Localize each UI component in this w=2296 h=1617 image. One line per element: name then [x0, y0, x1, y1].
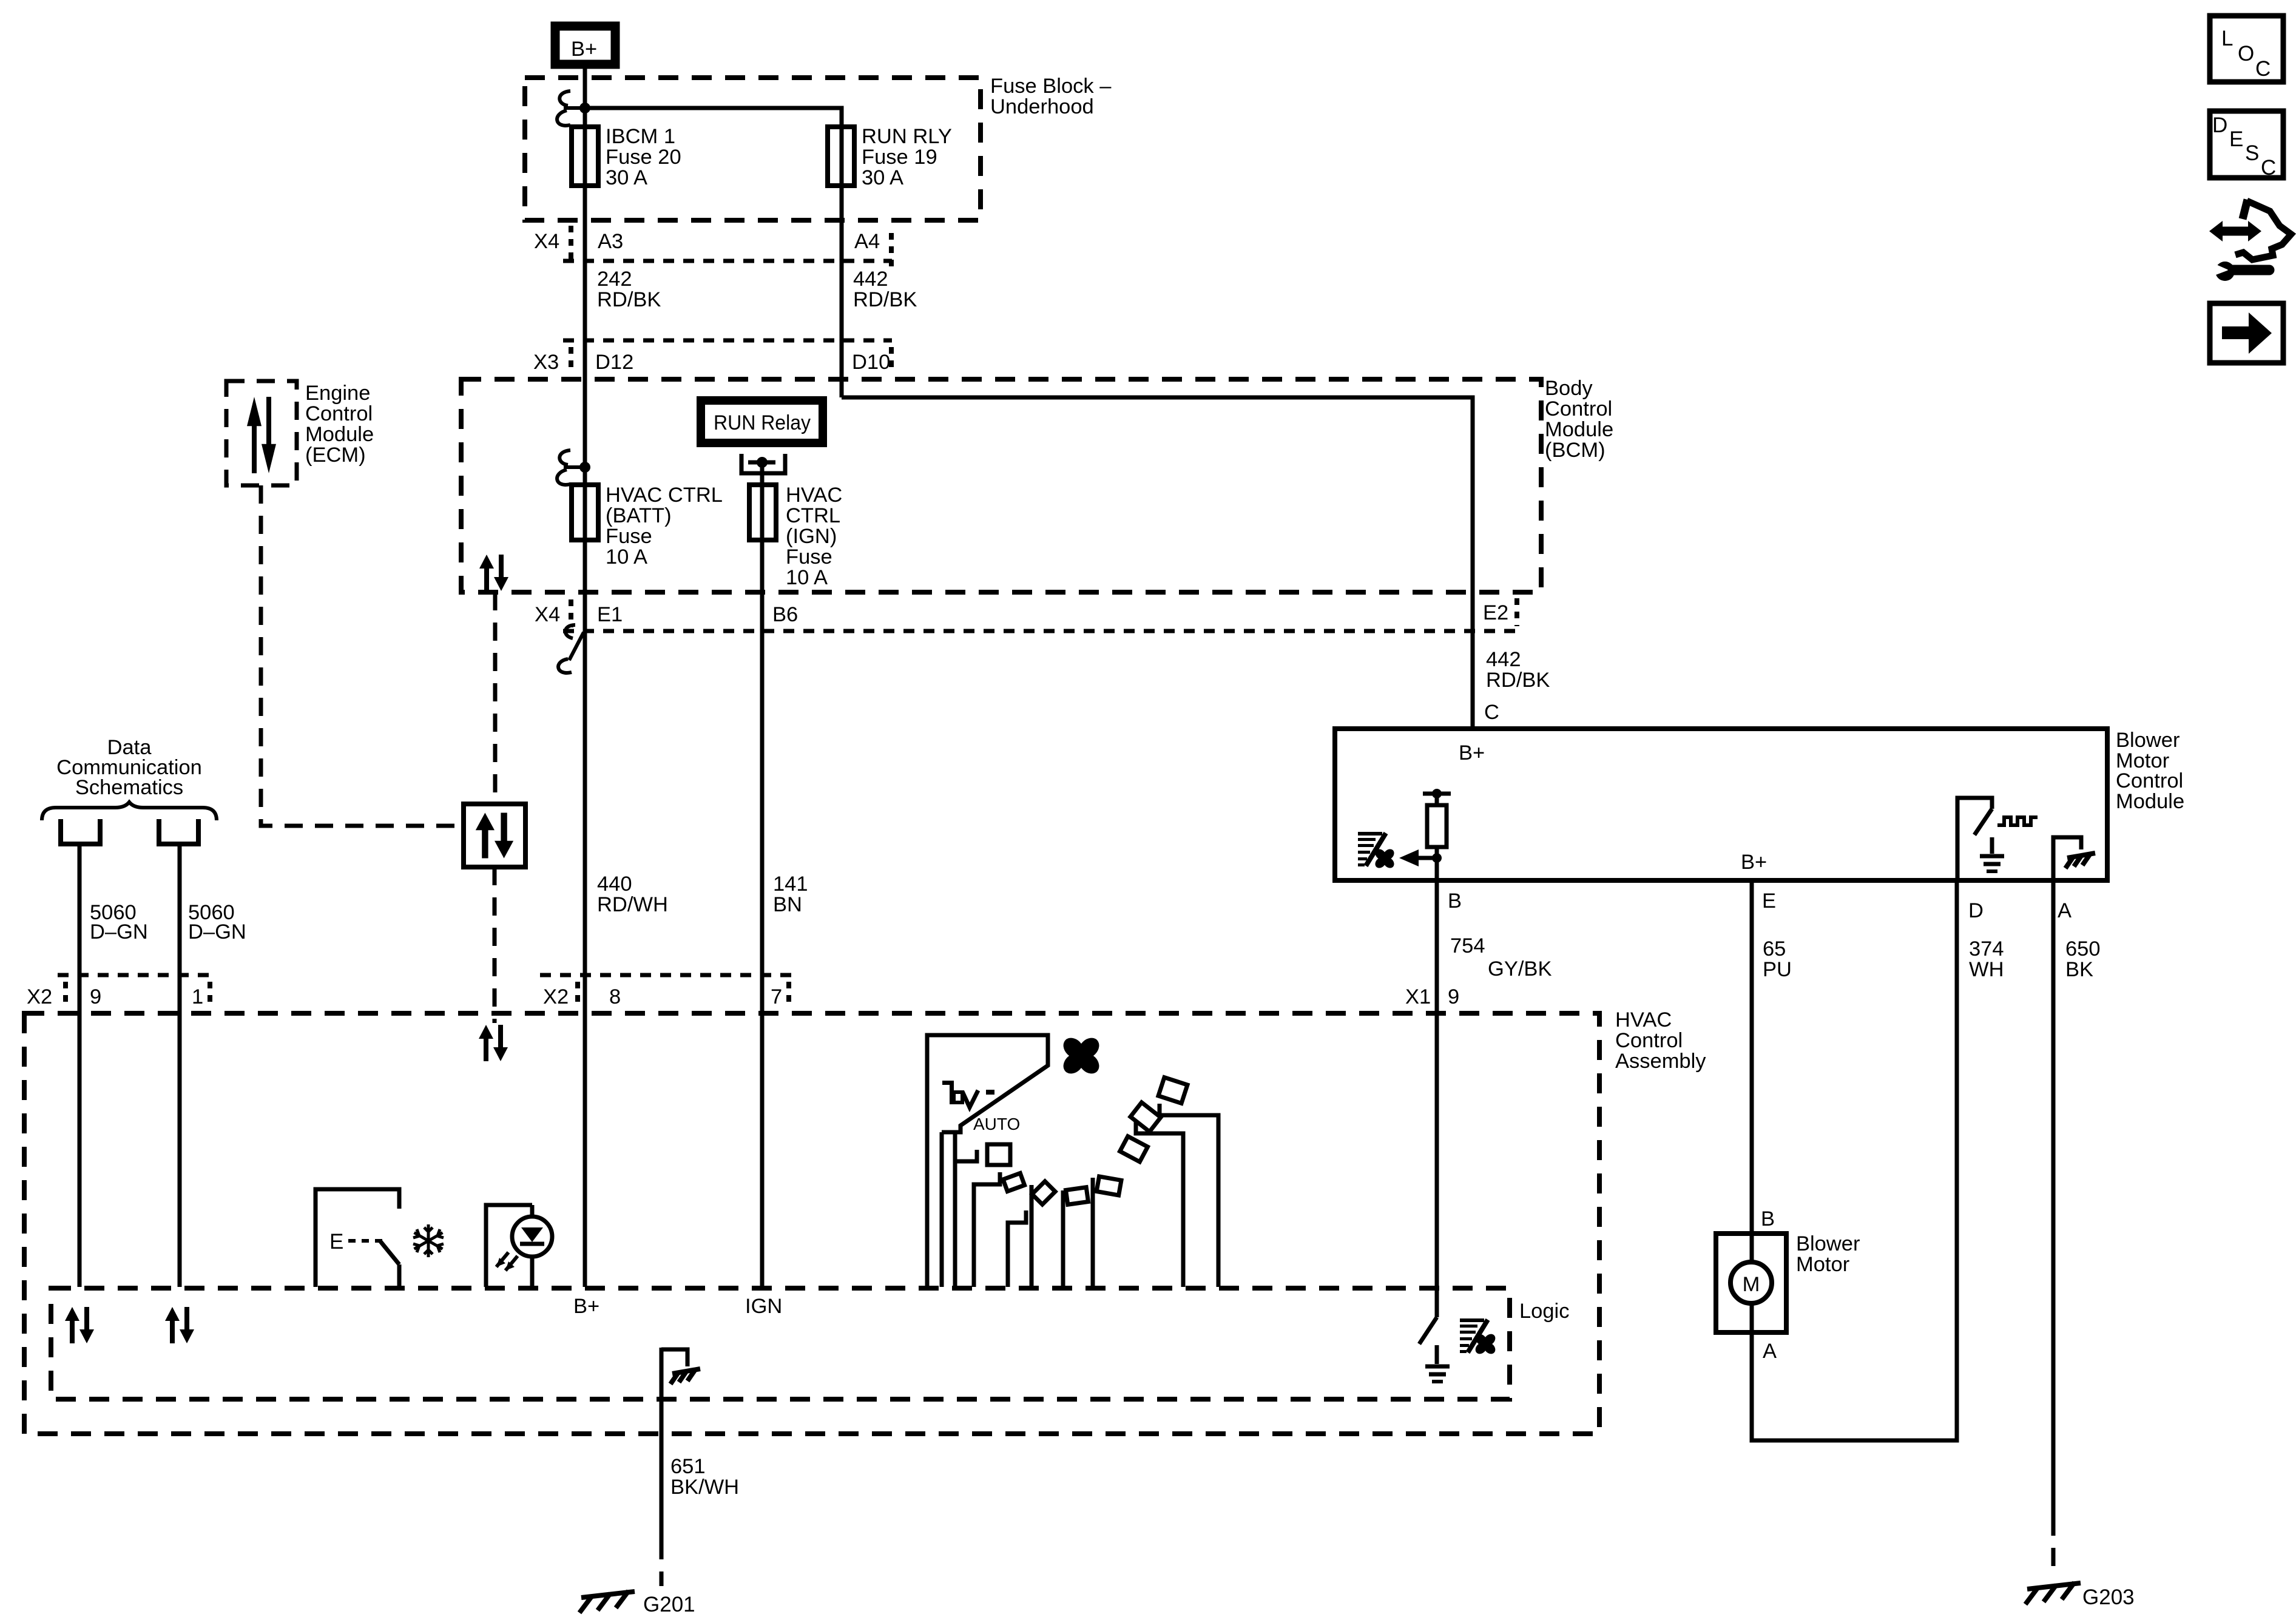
selector position line 10 — [1160, 1104, 1218, 1287]
svg-text:X4: X4 — [534, 230, 559, 253]
svg-text:C: C — [2261, 156, 2276, 180]
svg-text:Fuse 19: Fuse 19 — [862, 146, 937, 169]
svg-text:9: 9 — [90, 985, 101, 1008]
svg-text:X4: X4 — [535, 603, 560, 626]
blower relay switch — [1435, 880, 1439, 1317]
svg-text:30 A: 30 A — [606, 166, 647, 189]
Fuse Block - Underhood dashed box — [525, 78, 981, 220]
arrow to fan speed icon — [1417, 856, 1437, 860]
svg-text:B+: B+ — [573, 1295, 599, 1318]
fan speed icon logic — [1460, 1318, 1488, 1353]
svg-text:Blower: Blower — [1796, 1232, 1860, 1255]
svg-text:HVAC: HVAC — [1615, 1008, 1672, 1031]
svg-text:141: 141 — [773, 873, 808, 896]
snowflake icon — [413, 1224, 444, 1257]
Blower Motor box — [1716, 1234, 1786, 1332]
svg-text:A4: A4 — [854, 230, 880, 253]
svg-text:7: 7 — [771, 985, 782, 1008]
svg-text:RUN RLY: RUN RLY — [862, 125, 952, 148]
svg-text:RD/WH: RD/WH — [597, 893, 668, 916]
svg-text:Control: Control — [1615, 1029, 1683, 1052]
splice pass-through at E1 — [569, 632, 584, 660]
splice clip at B+ junction — [564, 106, 585, 110]
svg-text:WH: WH — [1969, 958, 2004, 981]
connector row X3 D12 D10 — [563, 339, 892, 343]
svg-text:IBCM 1: IBCM 1 — [606, 125, 675, 148]
RUN Relay output terminal — [741, 454, 785, 473]
svg-text:Control: Control — [2116, 769, 2183, 792]
fuse HVAC CTRL (IGN) 10A — [749, 485, 776, 540]
svg-text:B+: B+ — [571, 38, 597, 61]
svg-text:Schematics: Schematics — [75, 776, 183, 799]
serial data arrows logic right — [165, 1307, 194, 1343]
wire HVAC CTRL IGN feed — [760, 462, 765, 1287]
connector row X4 A3 A4 — [569, 226, 573, 260]
svg-text:IGN: IGN — [745, 1295, 782, 1318]
thermal switch bracket — [316, 1189, 399, 1287]
wire data bus left — [78, 844, 82, 1287]
icon forward arrow box — [2210, 303, 2283, 363]
wire data bus right — [178, 844, 182, 1287]
wire 650 BK ground lead — [2051, 880, 2056, 1517]
svg-text:Module: Module — [2116, 790, 2184, 813]
fuse IBCM 1 Fuse 20 30A — [572, 127, 598, 186]
svg-text:(BATT): (BATT) — [606, 504, 672, 527]
svg-text:B+: B+ — [1741, 851, 1767, 874]
icon DESC box — [2210, 111, 2283, 178]
svg-text:E2: E2 — [1483, 601, 1508, 624]
svg-text:X3: X3 — [533, 351, 559, 374]
svg-text:Fuse Block –: Fuse Block – — [990, 75, 1112, 98]
HVAC Control Assembly dashed box — [24, 1013, 1599, 1434]
selector contact pad 7 — [1158, 1078, 1187, 1104]
wire 374 WH motor return loop — [1752, 880, 1957, 1440]
svg-text:9: 9 — [1448, 985, 1459, 1008]
svg-text:30 A: 30 A — [862, 166, 903, 189]
svg-text:(IGN): (IGN) — [786, 525, 837, 548]
AUTO contact pad — [987, 1144, 1010, 1165]
fuse RUN RLY Fuse 19 30A — [828, 127, 854, 186]
thermal switch blade — [380, 1241, 399, 1264]
power feed B+ box — [555, 26, 615, 64]
svg-text:RD/BK: RD/BK — [597, 288, 661, 311]
fan selector OFF flag and wiper — [927, 1035, 1048, 1287]
svg-text:A: A — [2058, 899, 2071, 922]
wire 442 run to E2 — [842, 397, 1473, 729]
svg-text:C: C — [2255, 57, 2271, 81]
svg-text:E: E — [1762, 890, 1776, 913]
svg-text:Fuse: Fuse — [606, 525, 652, 548]
low speed glyph — [942, 1081, 954, 1085]
svg-text:RD/BK: RD/BK — [1486, 669, 1550, 692]
ground G203 — [2025, 1582, 2081, 1604]
svg-text:CTRL: CTRL — [786, 504, 840, 527]
svg-text:B: B — [1761, 1207, 1775, 1230]
svg-text:E: E — [329, 1230, 343, 1254]
LED emission arrows — [505, 1256, 518, 1271]
svg-text:HVAC: HVAC — [786, 484, 842, 507]
icon diagnostic hand wrench — [2243, 200, 2247, 219]
svg-text:65: 65 — [1763, 937, 1786, 960]
Engine Control Module (ECM) dashed box — [226, 381, 297, 485]
LED indicator branch — [486, 1205, 532, 1287]
chassis ground branch at A — [2053, 837, 2081, 880]
svg-text:D–GN: D–GN — [90, 920, 148, 944]
svg-text:10 A: 10 A — [786, 566, 828, 589]
svg-text:Fuse: Fuse — [786, 545, 832, 569]
svg-text:754: 754 — [1450, 934, 1485, 957]
svg-text:374: 374 — [1969, 937, 2004, 960]
svg-text:RUN Relay: RUN Relay — [714, 411, 811, 434]
svg-text:E1: E1 — [597, 603, 623, 626]
svg-text:A: A — [1763, 1340, 1777, 1363]
svg-text:B6: B6 — [772, 603, 798, 626]
selector contact pad 6 — [1130, 1102, 1161, 1132]
selector contact pad 5 — [1120, 1136, 1148, 1162]
svg-text:Module: Module — [305, 423, 374, 446]
selector position line 9 — [1136, 1122, 1183, 1287]
RUN Relay bold box — [701, 400, 823, 443]
svg-text:X1: X1 — [1405, 985, 1431, 1008]
PWM control switch at D — [1957, 798, 1992, 880]
node junction at fuse feed — [579, 103, 590, 113]
svg-text:Assembly: Assembly — [1615, 1050, 1706, 1073]
svg-text:O: O — [2238, 42, 2254, 66]
svg-text:AUTO: AUTO — [973, 1115, 1020, 1133]
svg-text:Module: Module — [1545, 418, 1613, 441]
svg-text:Control: Control — [305, 402, 373, 425]
svg-text:10 A: 10 A — [606, 545, 647, 569]
fuse HVAC CTRL (BATT) 10A — [572, 485, 598, 540]
svg-text:D: D — [2212, 113, 2227, 137]
svg-text:E: E — [2229, 127, 2243, 151]
svg-text:Body: Body — [1545, 377, 1593, 400]
svg-text:Underhood: Underhood — [990, 95, 1094, 118]
Blower Motor Control Module box — [1335, 729, 2107, 880]
svg-text:(BCM): (BCM) — [1545, 439, 1606, 462]
PWM waveform glyph — [1997, 817, 2038, 825]
selector position line 3 — [953, 1134, 957, 1287]
splice clip at BATT fuse junction — [579, 462, 590, 473]
serial data arrows in BCM — [479, 555, 508, 591]
svg-text:Fuse 20: Fuse 20 — [606, 146, 681, 169]
svg-text:442: 442 — [1486, 648, 1521, 671]
svg-text:Motor: Motor — [1796, 1253, 1849, 1276]
serial data arrows logic left — [65, 1307, 94, 1343]
svg-text:C: C — [1484, 701, 1499, 724]
selector position line 5 — [1008, 1210, 1026, 1287]
connector row X2 8 7 — [540, 973, 795, 977]
svg-text:RD/BK: RD/BK — [853, 288, 917, 311]
ground G201 — [579, 1591, 635, 1613]
fan icon selector — [1050, 1024, 1113, 1087]
icon LOC box — [2210, 16, 2283, 82]
svg-text:L: L — [2221, 27, 2233, 50]
svg-text:GY/BK: GY/BK — [1488, 957, 1551, 981]
svg-text:(ECM): (ECM) — [305, 444, 366, 467]
signal ground in logic — [1425, 1365, 1450, 1369]
svg-text:HVAC CTRL: HVAC CTRL — [606, 484, 723, 507]
svg-text:651: 651 — [670, 1455, 706, 1478]
Body Control Module (BCM) dashed box — [461, 379, 1541, 592]
selector contact pad 3 — [1065, 1187, 1088, 1204]
svg-text:PU: PU — [1763, 958, 1792, 981]
svg-text:BN: BN — [773, 893, 802, 916]
selector position line 8 — [1091, 1178, 1095, 1287]
wire dashed serial data to HVAC — [493, 867, 497, 1023]
svg-text:D–GN: D–GN — [188, 920, 246, 944]
wire dashed to G201 — [660, 1541, 664, 1586]
svg-text:Engine: Engine — [305, 382, 370, 405]
svg-text:G203: G203 — [2082, 1585, 2135, 1609]
data terminal right — [159, 819, 198, 844]
selector position line 4 — [974, 1172, 1000, 1287]
svg-text:BK: BK — [2065, 958, 2093, 981]
signal ground in module — [1980, 854, 2004, 859]
svg-text:B: B — [1448, 890, 1462, 913]
selector contact pad 1 — [1003, 1173, 1024, 1192]
ground lead 651 — [660, 1348, 664, 1541]
svg-text:X2: X2 — [543, 985, 569, 1008]
serial data junction box — [464, 804, 525, 867]
svg-text:D: D — [1968, 899, 1984, 922]
connector row X2 9 1 — [58, 973, 215, 977]
wire junction to RUN RLY fuse — [585, 108, 842, 397]
svg-text:442: 442 — [853, 268, 888, 291]
Logic dashed box — [51, 1288, 1510, 1399]
svg-text:M: M — [1743, 1273, 1760, 1296]
svg-text:A3: A3 — [598, 230, 623, 253]
svg-text:Control: Control — [1545, 397, 1612, 420]
serial data arrows in ECM — [247, 397, 276, 473]
svg-text:D12: D12 — [595, 351, 633, 374]
selector position line 7 — [1061, 1190, 1065, 1287]
selector contact pad 4 — [1096, 1176, 1121, 1195]
svg-text:650: 650 — [2065, 937, 2101, 960]
wire dashed serial data from ECM — [261, 485, 462, 826]
svg-text:BK/WH: BK/WH — [670, 1476, 739, 1499]
LED circle — [512, 1217, 552, 1257]
serial data arrows below connector — [479, 1025, 508, 1061]
data terminal left — [61, 819, 100, 844]
svg-text:B+: B+ — [1459, 741, 1485, 765]
motor M circle — [1730, 1262, 1772, 1303]
svg-text:1: 1 — [192, 985, 203, 1008]
wire 65 PU to blower motor — [1750, 880, 1754, 1262]
svg-text:8: 8 — [609, 985, 621, 1008]
svg-text:242: 242 — [597, 268, 632, 291]
wire B+ feed main vertical — [583, 69, 587, 1287]
svg-text:Blower: Blower — [2116, 729, 2180, 752]
svg-text:G201: G201 — [643, 1593, 695, 1616]
svg-text:S: S — [2245, 141, 2259, 165]
svg-text:Logic: Logic — [1519, 1300, 1569, 1323]
svg-text:440: 440 — [597, 873, 632, 896]
fan speed icon module — [1358, 832, 1386, 866]
svg-text:X2: X2 — [27, 985, 52, 1008]
resistor with terminal — [1423, 792, 1451, 796]
selector contact pad 2 — [1032, 1181, 1055, 1204]
selector position line 6 — [1030, 1185, 1034, 1287]
wire dashed serial data BCM to junction box — [493, 592, 498, 804]
svg-text:D10: D10 — [852, 351, 890, 374]
connector row X4 E1 B6 E2 — [563, 629, 1520, 633]
